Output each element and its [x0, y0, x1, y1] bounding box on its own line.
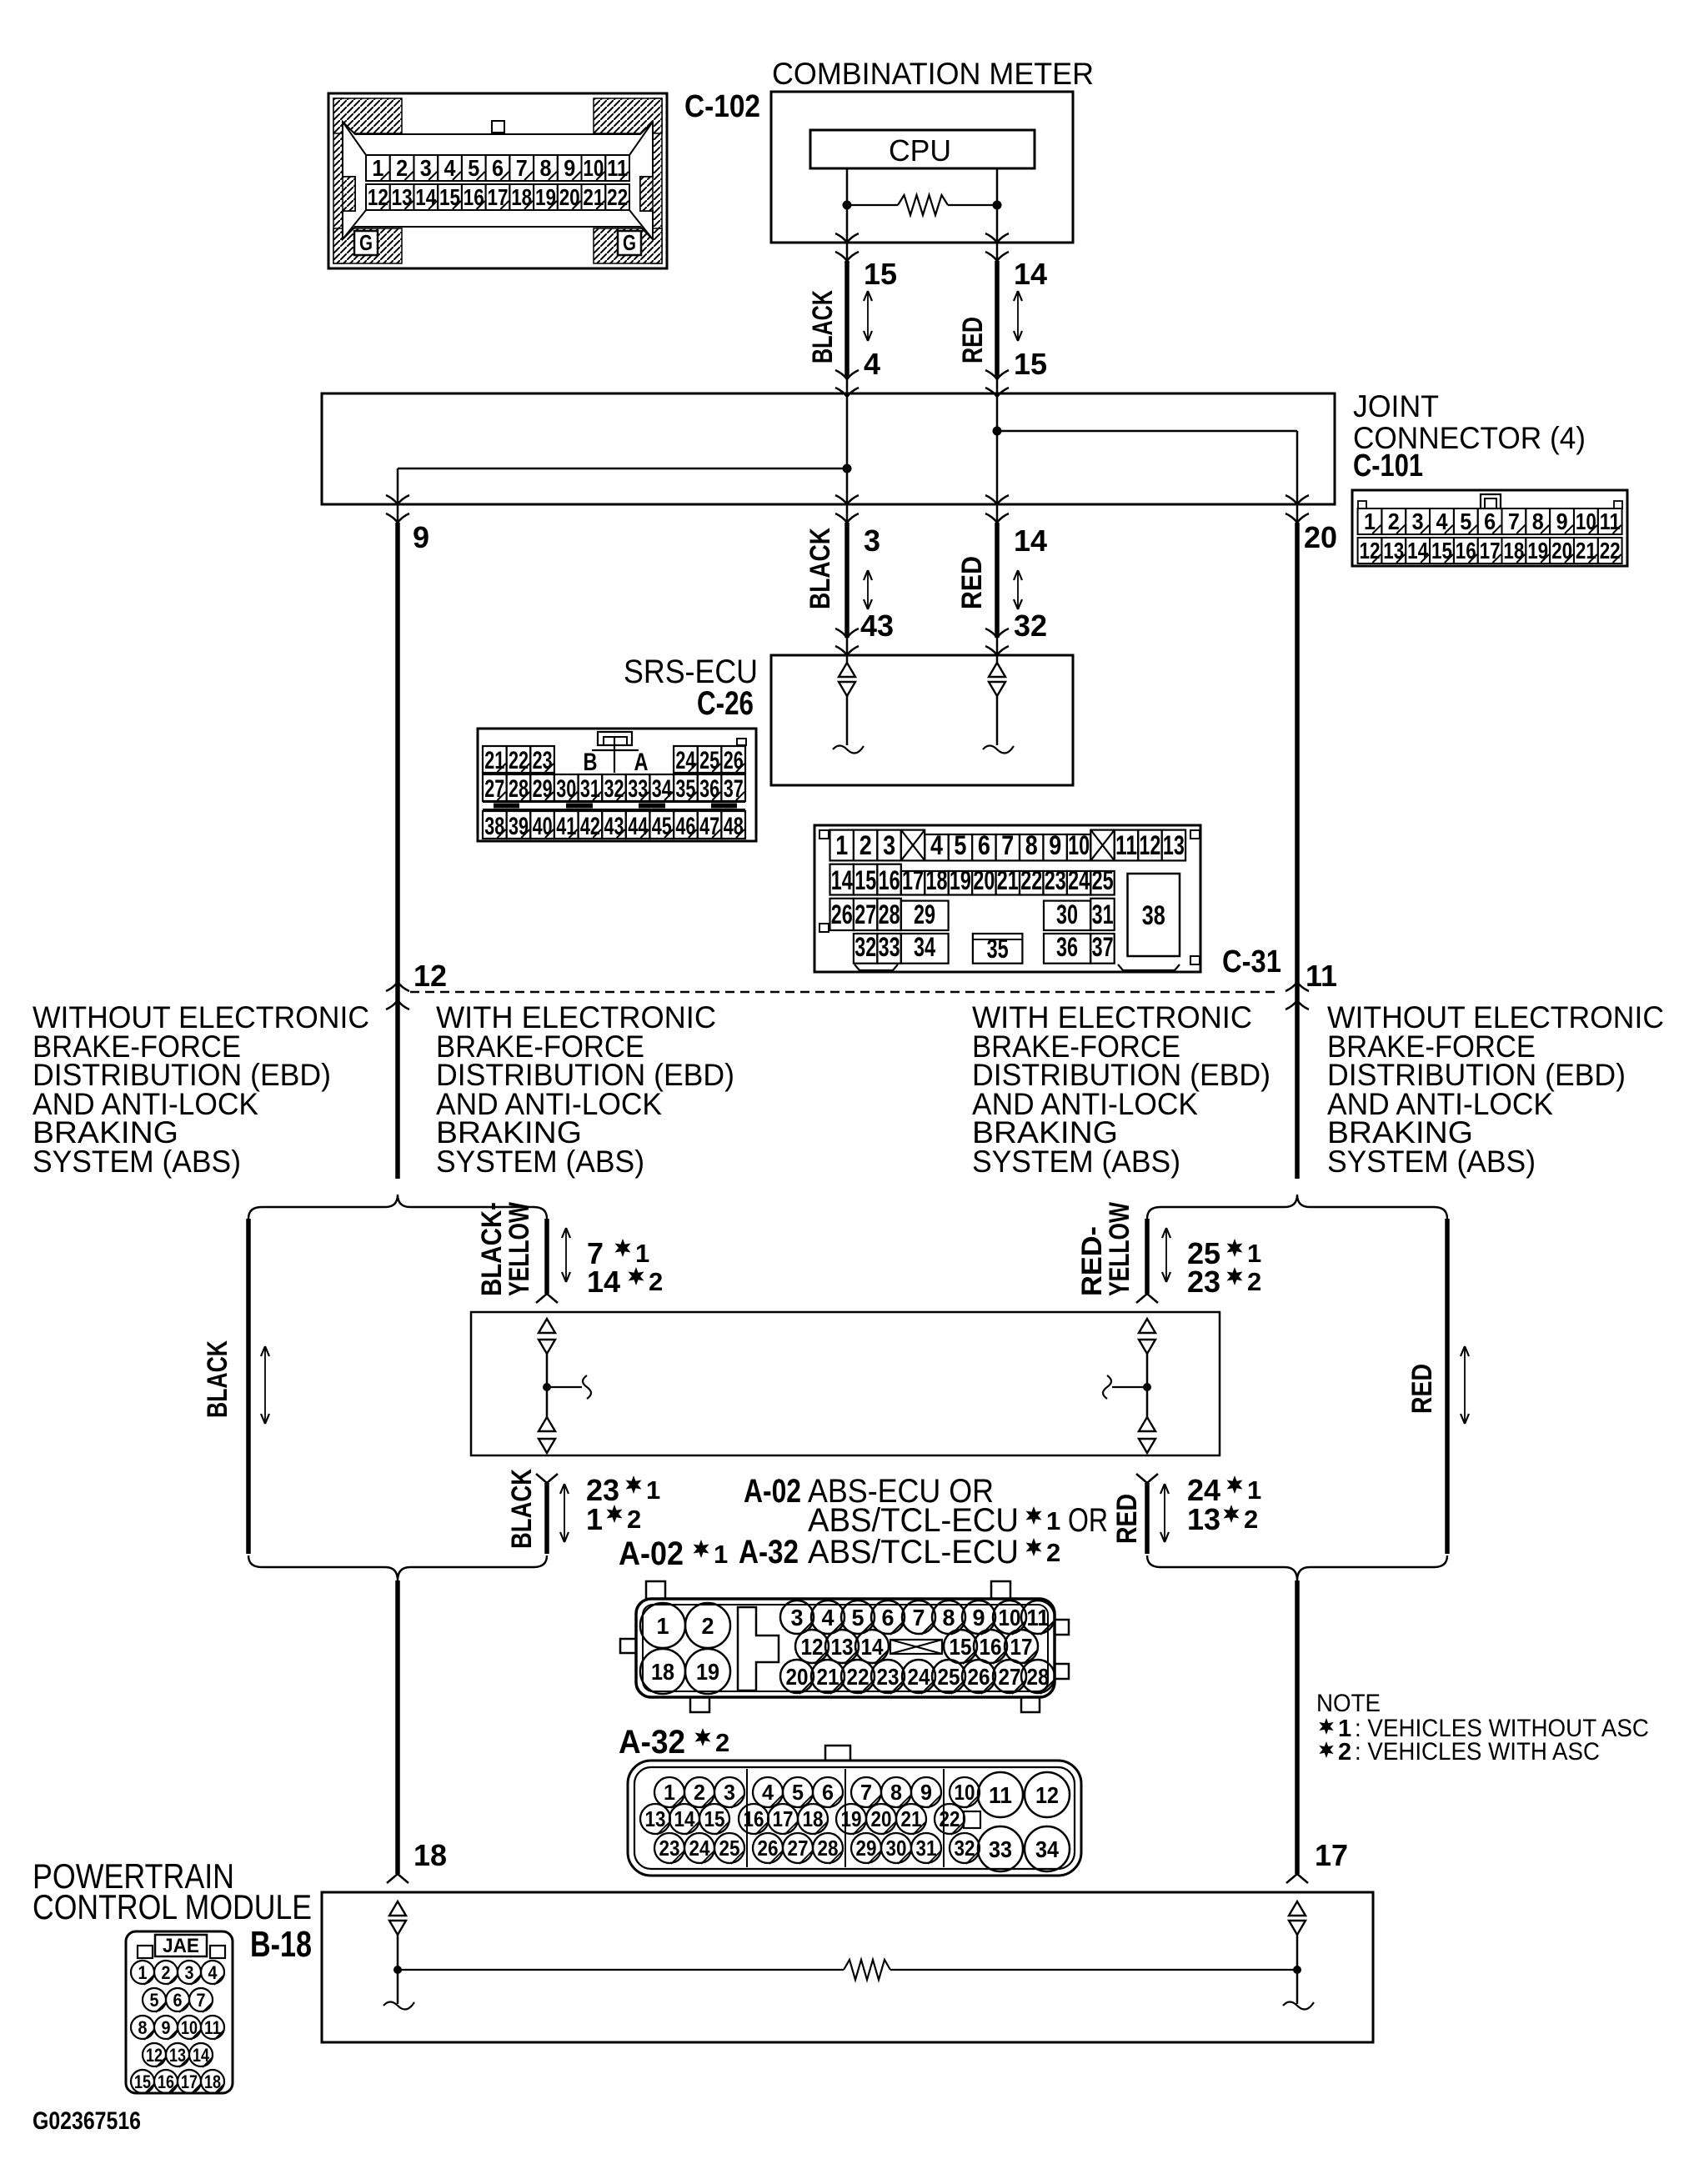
svg-text:22: 22 — [1600, 538, 1621, 564]
svg-text:33: 33 — [628, 775, 648, 803]
svg-text:14: 14 — [1407, 538, 1428, 564]
brace bottom left — [248, 1555, 547, 1580]
svg-text:28: 28 — [1027, 1664, 1050, 1690]
C-31 X cells — [901, 830, 925, 861]
svg-text:2: 2 — [1244, 1505, 1258, 1534]
svg-text:15: 15 — [704, 1806, 725, 1831]
wire RED-YELLOW — [1145, 1219, 1150, 1294]
svg-text:11: 11 — [1306, 959, 1337, 993]
svg-text:1: 1 — [586, 1502, 603, 1536]
wire stub below box left — [536, 1474, 558, 1483]
svg-text:15: 15 — [950, 1634, 972, 1660]
arrow below left — [564, 1485, 565, 1540]
arrow span left — [867, 293, 869, 339]
svg-text:16: 16 — [464, 184, 484, 210]
svg-text:16: 16 — [158, 2071, 174, 2092]
wire stub below box right — [1136, 1474, 1158, 1483]
svg-text:5: 5 — [852, 1605, 865, 1630]
svg-text:14: 14 — [193, 2045, 210, 2066]
svg-text:4: 4 — [208, 1962, 218, 1983]
C-31 corner notches — [819, 830, 829, 839]
squib symbol PCM x477 — [389, 1901, 406, 1916]
svg-text:24: 24 — [908, 1664, 930, 1690]
arrow span srs right — [1017, 572, 1019, 608]
svg-text:43: 43 — [860, 609, 894, 643]
A-02 side tabs — [620, 1639, 636, 1653]
svg-text:13: 13 — [831, 1634, 854, 1660]
C-101 pin grid — [1358, 508, 1382, 534]
svg-text:29: 29 — [914, 899, 935, 929]
svg-text:8: 8 — [943, 1605, 955, 1630]
connector crossing C-101 exit 9 — [386, 495, 409, 504]
C-31 row4 cells — [854, 934, 877, 964]
svg-text:7: 7 — [1508, 508, 1520, 534]
svg-text:2: 2 — [860, 830, 872, 860]
C-26 top-right notch — [737, 739, 746, 745]
svg-text:18: 18 — [651, 1659, 674, 1685]
B-18 pins y2497 — [131, 2070, 154, 2093]
svg-text:5: 5 — [954, 830, 966, 860]
A-32 pins row3 — [654, 1833, 684, 1863]
svg-text:16: 16 — [744, 1806, 764, 1831]
wire to PCM 17 — [1295, 1580, 1300, 1874]
A-32 top tab — [825, 1746, 850, 1761]
arrow black-yellow — [565, 1230, 567, 1280]
svg-text:14: 14 — [861, 1634, 884, 1660]
wire RED C-102:14 to C-101:15 — [995, 261, 1000, 376]
svg-text:8: 8 — [890, 1780, 902, 1805]
svg-text:A-02: A-02 — [744, 1473, 801, 1510]
svg-text:11: 11 — [204, 2017, 221, 2038]
svg-text:13: 13 — [169, 2045, 186, 2066]
arrow span srs left — [867, 572, 869, 608]
svg-text:17: 17 — [488, 184, 509, 210]
svg-text:31: 31 — [580, 775, 600, 803]
B-18 JAE box — [155, 1935, 207, 1956]
node joint dot black — [843, 464, 852, 473]
wire BLACK C-101:3 to C-26:43 — [844, 523, 850, 638]
wire RED tall right — [1445, 1219, 1450, 1554]
svg-text:12: 12 — [1360, 538, 1381, 564]
svg-text:2: 2 — [162, 1962, 171, 1983]
svg-text:37: 37 — [724, 775, 744, 803]
svg-text:48: 48 — [724, 813, 744, 840]
svg-text:36: 36 — [1056, 932, 1078, 962]
svg-text:11: 11 — [1115, 830, 1137, 860]
svg-text:10: 10 — [1576, 508, 1596, 534]
svg-text:ABS/TCL-ECU: ABS/TCL-ECU — [808, 1534, 1019, 1570]
svg-text:20: 20 — [1551, 538, 1572, 564]
brace top left — [248, 1195, 547, 1219]
svg-text:29: 29 — [533, 775, 553, 803]
svg-text:19: 19 — [535, 184, 556, 210]
B-18 pins y2432 — [131, 2016, 154, 2039]
svg-text:44: 44 — [628, 813, 648, 840]
A-32 group dividers — [746, 1769, 748, 1867]
connector crossing C-101 exit 3 — [835, 495, 859, 504]
svg-text:1: 1 — [664, 1780, 675, 1805]
svg-text:19: 19 — [950, 865, 971, 895]
A-02 top tabs — [646, 1581, 665, 1599]
C-26 row2 cells — [483, 774, 507, 801]
C-101 corner notches — [1358, 501, 1366, 508]
svg-text:26: 26 — [724, 747, 744, 774]
svg-text:4: 4 — [822, 1605, 834, 1630]
SRS-ECU box — [771, 655, 1073, 785]
svg-text:9: 9 — [413, 520, 429, 554]
C-31 cell 30 — [1044, 901, 1090, 930]
svg-text:7: 7 — [1001, 830, 1014, 860]
wire RED C-101:14 to C-26:32 — [995, 523, 1000, 638]
connector C-26 outline — [478, 729, 756, 841]
svg-text:17: 17 — [1315, 1838, 1348, 1872]
svg-text:5: 5 — [468, 155, 479, 181]
svg-text:16: 16 — [1456, 538, 1476, 564]
connector crossing C-26 32 — [996, 638, 999, 655]
svg-text:3: 3 — [420, 155, 432, 181]
wire CPU left leg — [846, 168, 849, 205]
svg-text:15: 15 — [855, 865, 876, 895]
C-101 top tab — [1481, 494, 1501, 508]
wire inside joint box black — [846, 376, 849, 523]
connector crossing C-26 43 — [846, 638, 849, 655]
svg-text:SYSTEM (ABS): SYSTEM (ABS) — [436, 1145, 644, 1179]
A-02 crossed blank — [890, 1640, 942, 1654]
B-18 pins y2366 — [131, 1961, 154, 1984]
svg-text:12: 12 — [1035, 1782, 1059, 1808]
node junction dot left — [843, 201, 852, 210]
wire left to CM box edge — [846, 205, 849, 261]
svg-text:40: 40 — [533, 813, 553, 840]
svg-text:27: 27 — [788, 1836, 809, 1861]
break chevrons left — [386, 982, 409, 991]
wire right to CM box edge — [996, 205, 999, 261]
svg-text:8: 8 — [1532, 508, 1544, 534]
svg-text:32: 32 — [855, 932, 876, 962]
wire inside joint box red — [996, 376, 999, 523]
svg-text:2: 2 — [715, 1728, 729, 1757]
svg-text:45: 45 — [652, 813, 672, 840]
svg-text:6: 6 — [173, 1990, 183, 2011]
svg-text:4: 4 — [762, 1780, 774, 1805]
node junction dot right — [993, 201, 1002, 210]
wire BLACK C-102:15 to C-101:4 — [844, 261, 850, 376]
svg-text:18: 18 — [511, 184, 532, 210]
svg-text:SYSTEM (ABS): SYSTEM (ABS) — [972, 1145, 1180, 1179]
svg-text:43: 43 — [604, 813, 624, 840]
svg-text:CPU: CPU — [889, 133, 951, 168]
svg-text:SYSTEM (ABS): SYSTEM (ABS) — [1327, 1145, 1536, 1179]
svg-text:1: 1 — [1247, 1239, 1261, 1268]
svg-text:G: G — [359, 230, 373, 255]
svg-text:23: 23 — [1187, 1265, 1220, 1299]
C-102 perspective lines — [343, 122, 366, 155]
svg-text:13: 13 — [392, 184, 413, 210]
svg-text:JAE: JAE — [163, 1935, 199, 1957]
svg-text:2: 2 — [627, 1505, 641, 1534]
B-18 pins y2399 — [143, 1988, 166, 2011]
C-26 separator band — [483, 801, 745, 803]
C-31 bottom tabs — [855, 964, 898, 970]
node joint dot red — [993, 427, 1002, 436]
svg-text:1: 1 — [1247, 1475, 1261, 1505]
svg-text:14: 14 — [587, 1265, 620, 1299]
svg-text:RED: RED — [956, 556, 988, 609]
svg-text:22: 22 — [509, 747, 529, 774]
svg-text:33: 33 — [989, 1836, 1012, 1862]
svg-text:4: 4 — [1436, 508, 1448, 534]
C-31 cell 38 — [1128, 874, 1180, 956]
svg-text:1: 1 — [635, 1239, 649, 1268]
svg-text:11: 11 — [1600, 508, 1621, 534]
svg-text:10: 10 — [181, 2017, 198, 2038]
svg-text:13: 13 — [645, 1806, 666, 1831]
svg-text:30: 30 — [886, 1836, 907, 1861]
combination meter box — [771, 92, 1073, 243]
connector crossing C-101 exit 14 — [985, 495, 1009, 504]
svg-text:11: 11 — [607, 155, 628, 181]
svg-text:32: 32 — [1014, 609, 1047, 643]
svg-text:46: 46 — [675, 813, 695, 840]
squib symbol PCM x1556 — [1289, 1901, 1306, 1916]
svg-text:G02367516: G02367516 — [33, 2107, 141, 2135]
connector crossing C-101 pin15 entry — [985, 370, 1009, 379]
svg-text:12: 12 — [368, 184, 388, 210]
svg-text:7: 7 — [913, 1605, 925, 1630]
arrow tall left — [264, 1348, 266, 1422]
svg-text:24: 24 — [1068, 865, 1090, 895]
svg-text:6: 6 — [492, 155, 504, 181]
svg-text:15: 15 — [1014, 347, 1047, 381]
svg-text:G: G — [623, 230, 636, 255]
svg-text:8: 8 — [1025, 830, 1038, 860]
svg-text:4: 4 — [864, 347, 880, 381]
svg-text:23: 23 — [533, 747, 553, 774]
svg-text:31: 31 — [1092, 899, 1114, 929]
svg-text:14: 14 — [1014, 523, 1047, 558]
svg-text:21: 21 — [583, 184, 604, 210]
svg-text:25: 25 — [1092, 865, 1114, 895]
svg-text:3: 3 — [883, 830, 895, 860]
CPU block U1 — [810, 130, 1035, 168]
connector A-32 outline — [628, 1761, 1081, 1876]
svg-text:1: 1 — [1364, 508, 1376, 534]
C-26 BA area — [592, 749, 639, 751]
svg-text:9: 9 — [564, 155, 575, 181]
svg-text:38: 38 — [1142, 900, 1165, 930]
svg-text:YELLOW: YELLOW — [504, 1201, 535, 1296]
note line *1 — [1319, 1718, 1333, 1735]
break chevrons right — [1286, 982, 1309, 991]
svg-text:A-32: A-32 — [619, 1724, 685, 1761]
svg-text:28: 28 — [818, 1836, 839, 1861]
wire joint red branch right — [997, 430, 1297, 433]
svg-text:22: 22 — [940, 1806, 960, 1831]
svg-text:42: 42 — [580, 813, 600, 840]
svg-text:RED: RED — [1406, 1364, 1438, 1414]
arrow red-yellow — [1165, 1230, 1167, 1280]
svg-text:7: 7 — [197, 1990, 206, 2011]
C-102 top tab — [492, 121, 504, 133]
svg-text:25: 25 — [699, 747, 719, 774]
svg-text:18: 18 — [803, 1806, 824, 1831]
svg-text:5: 5 — [150, 1990, 159, 2011]
ABS ECU box — [471, 1312, 1220, 1455]
svg-text:15: 15 — [864, 257, 897, 291]
connector crossing C-101 exit 20 — [1286, 495, 1309, 504]
svg-text:20: 20 — [1304, 520, 1337, 554]
svg-text:27: 27 — [999, 1664, 1021, 1690]
note line *2 — [1319, 1741, 1333, 1758]
A-02 small pins row2 — [795, 1630, 829, 1663]
svg-text:20: 20 — [559, 184, 580, 210]
svg-text:26: 26 — [831, 899, 853, 929]
svg-text:2: 2 — [702, 1613, 714, 1639]
svg-text:2: 2 — [1247, 1267, 1261, 1296]
svg-text:29: 29 — [856, 1836, 877, 1861]
svg-text:C-26: C-26 — [697, 685, 754, 722]
svg-text:9: 9 — [973, 1605, 985, 1630]
svg-text:BLACK: BLACK — [804, 528, 836, 609]
svg-text:32: 32 — [604, 775, 624, 803]
svg-text:16: 16 — [980, 1634, 1002, 1660]
svg-text:27: 27 — [855, 899, 876, 929]
svg-text:21: 21 — [997, 865, 1019, 895]
svg-text:26: 26 — [968, 1664, 990, 1690]
svg-text:A: A — [634, 749, 649, 776]
svg-text:A-32: A-32 — [739, 1534, 799, 1570]
svg-text:23: 23 — [659, 1836, 680, 1861]
svg-text:15: 15 — [134, 2071, 151, 2092]
A-32 pins row1 — [654, 1777, 684, 1807]
svg-text:4: 4 — [930, 830, 943, 860]
svg-text:1: 1 — [138, 1962, 148, 1983]
svg-text:2: 2 — [396, 155, 408, 181]
svg-text:11: 11 — [989, 1782, 1012, 1808]
svg-text:20: 20 — [786, 1664, 809, 1690]
svg-text:13: 13 — [1163, 830, 1185, 860]
svg-text:15: 15 — [439, 184, 460, 210]
svg-text:34: 34 — [914, 932, 935, 962]
svg-text:SYSTEM (ABS): SYSTEM (ABS) — [33, 1145, 241, 1179]
A-32 big pins — [978, 1772, 1023, 1817]
PCM box — [322, 1892, 1373, 2042]
svg-text:OR: OR — [1068, 1502, 1108, 1539]
svg-text:35: 35 — [675, 775, 695, 803]
svg-text:1: 1 — [1046, 1506, 1060, 1535]
svg-text:8: 8 — [138, 2017, 148, 2038]
squib symbol ABS x656 — [539, 1319, 555, 1333]
C-31 row1 cells — [830, 830, 854, 861]
svg-text:17: 17 — [773, 1806, 794, 1831]
svg-text:: VEHICLES WITH ASC: : VEHICLES WITH ASC — [1355, 1738, 1600, 1766]
svg-text:14: 14 — [674, 1806, 695, 1831]
svg-text:17: 17 — [1480, 538, 1501, 564]
svg-text:6: 6 — [978, 830, 990, 860]
svg-text:34: 34 — [652, 775, 672, 803]
svg-text:28: 28 — [879, 899, 900, 929]
svg-text:A-02: A-02 — [619, 1535, 684, 1572]
resistor R2 (PCM) — [398, 1969, 844, 1971]
svg-text:BLACK: BLACK — [202, 1340, 233, 1418]
svg-text:1: 1 — [835, 830, 848, 860]
svg-text:2: 2 — [1388, 508, 1400, 534]
svg-text:9: 9 — [920, 1780, 932, 1805]
svg-text:18: 18 — [1503, 538, 1524, 564]
svg-text:28: 28 — [509, 775, 529, 803]
svg-text:12: 12 — [1139, 830, 1160, 860]
wire BLACK tall left — [246, 1219, 251, 1554]
svg-text:C-31: C-31 — [1222, 944, 1281, 979]
svg-text:21: 21 — [901, 1806, 922, 1831]
C-31 row2 cells — [830, 864, 854, 895]
svg-text:3: 3 — [791, 1605, 804, 1630]
connector A-02 outline — [636, 1599, 1055, 1697]
svg-text:6: 6 — [822, 1780, 834, 1805]
svg-text:21: 21 — [1576, 538, 1596, 564]
svg-text:3: 3 — [1412, 508, 1424, 534]
C-26 row1 cells — [483, 746, 507, 773]
svg-text:22: 22 — [847, 1664, 870, 1690]
svg-text:12: 12 — [801, 1634, 824, 1660]
connector C-31 outline — [814, 825, 1200, 972]
A-02 small pins row1 — [780, 1600, 814, 1634]
svg-text:9: 9 — [1049, 830, 1061, 860]
svg-text:24: 24 — [675, 747, 695, 774]
wire CPU right leg — [996, 168, 999, 205]
A-32 small square — [964, 1811, 980, 1828]
C-31 cell 34 — [901, 934, 949, 964]
svg-text:9: 9 — [1556, 508, 1568, 534]
svg-text:38: 38 — [484, 813, 504, 840]
svg-text:7: 7 — [516, 155, 528, 181]
svg-text:18: 18 — [926, 865, 948, 895]
C-102 G boxes — [354, 231, 378, 255]
B-18 top tabs — [138, 1946, 153, 1958]
svg-text:3: 3 — [864, 523, 880, 558]
svg-text:5: 5 — [792, 1780, 804, 1805]
C-31 row3 cells — [830, 899, 854, 930]
svg-text:35: 35 — [987, 934, 1009, 964]
svg-text:12: 12 — [146, 2045, 163, 2066]
connector crossing C-102 pin14 — [985, 233, 1009, 243]
svg-text:2: 2 — [694, 1780, 705, 1805]
C-102 pin grid — [366, 155, 390, 181]
svg-text:37: 37 — [1092, 932, 1114, 962]
svg-text:34: 34 — [1035, 1836, 1059, 1862]
connector C-101 outer — [1352, 490, 1627, 566]
svg-text:26: 26 — [758, 1836, 779, 1861]
svg-text:COMBINATION METER: COMBINATION METER — [772, 57, 1094, 91]
squib symbol ABS x1376 — [1139, 1319, 1155, 1333]
svg-text:11: 11 — [1027, 1605, 1050, 1630]
svg-text:41: 41 — [556, 813, 576, 840]
svg-text:20: 20 — [871, 1806, 892, 1831]
svg-text:19: 19 — [841, 1806, 862, 1831]
svg-text:13: 13 — [1383, 538, 1404, 564]
wire joint black branch left — [398, 468, 847, 470]
svg-text:19: 19 — [1527, 538, 1548, 564]
wire RED C-101:20 down — [1295, 523, 1300, 1179]
joint connector C-101 box — [322, 393, 1335, 504]
svg-text:13: 13 — [1187, 1502, 1220, 1536]
svg-text:10: 10 — [999, 1605, 1021, 1630]
brace bottom right — [1147, 1555, 1447, 1580]
svg-text:22: 22 — [607, 184, 628, 210]
svg-text:23: 23 — [1045, 865, 1066, 895]
svg-text:17: 17 — [181, 2071, 198, 2092]
A-02 small pins row3 — [780, 1660, 814, 1693]
